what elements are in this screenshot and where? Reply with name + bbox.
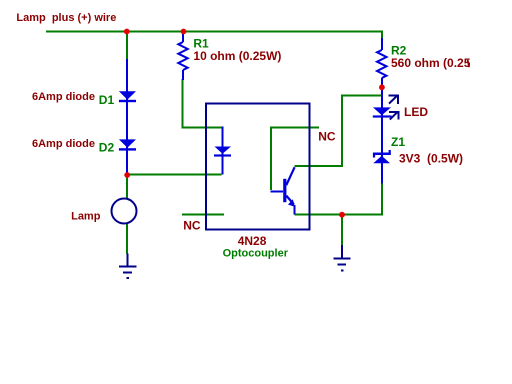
LED emission arrow 2 <box>389 111 399 120</box>
optocoupler internal LED <box>214 127 231 175</box>
transistor Q1 <box>271 167 295 214</box>
diode D2 <box>119 139 136 150</box>
node J1: top rail / D1 column <box>124 29 130 35</box>
LED (right column) <box>373 89 392 152</box>
wire: top (+) rail <box>46 32 382 40</box>
label: clipped W stroke of (0.25W) <box>468 60 470 67</box>
lamp LP1 circle <box>112 199 137 224</box>
svg-text:6Amp diode: 6Amp diode <box>32 91 95 103</box>
node J4: D2 / lamp / opto cathode <box>124 172 130 178</box>
wire: D1/D2 column (blue) <box>126 59 128 173</box>
optocoupler U1 box <box>206 104 310 230</box>
wire: R1 bottom to optocoupler LED anode <box>183 79 222 128</box>
wire: from junction J1 down to D1 <box>126 32 128 60</box>
wire: emitter junction down to ground <box>341 215 343 246</box>
svg-text:NC: NC <box>318 130 336 144</box>
resistor R2 <box>377 38 387 88</box>
svg-text:D1: D1 <box>99 93 115 107</box>
svg-text:D2: D2 <box>99 141 115 155</box>
svg-text:Lamp: Lamp <box>71 211 101 223</box>
diode D1 <box>119 91 136 102</box>
node J3: R2 / LED <box>379 84 385 90</box>
node J5: emitter / ground <box>339 212 345 218</box>
LED emission arrow 1 <box>389 95 399 104</box>
zener Z1 <box>373 117 391 184</box>
svg-text:Z1: Z1 <box>391 135 405 149</box>
resistor R1 <box>178 32 187 80</box>
svg-text:LED: LED <box>404 105 428 119</box>
wire: D2 junction down to lamp <box>126 176 128 199</box>
svg-text:4N28: 4N28 <box>238 234 267 248</box>
ground (middle, below emitter junction) <box>334 245 351 271</box>
wire: D2 junction to optocoupler LED cathode <box>127 174 222 176</box>
svg-text:3V3 (0.5W): 3V3 (0.5W) <box>399 152 463 166</box>
wire: emitter to right column <box>295 183 382 215</box>
svg-text:Lamp plus (+) wire: Lamp plus (+) wire <box>16 12 116 24</box>
svg-text:10 ohm (0.25W): 10 ohm (0.25W) <box>193 49 281 63</box>
ground (left, below lamp) <box>119 254 136 279</box>
node J2: top rail / R1 <box>181 29 187 35</box>
wire: transistor base NC wire <box>271 128 319 191</box>
svg-text:560 ohm (0.25: 560 ohm (0.25 <box>391 56 471 70</box>
wire: lamp down to ground <box>126 224 128 254</box>
svg-text:Optocoupler: Optocoupler <box>223 248 289 260</box>
wire: NC pin bottom-left of optocoupler <box>182 214 224 216</box>
svg-text:NC: NC <box>183 219 201 233</box>
wire: collector to LED anode node <box>295 96 382 166</box>
svg-text:6Amp diode: 6Amp diode <box>32 138 95 150</box>
